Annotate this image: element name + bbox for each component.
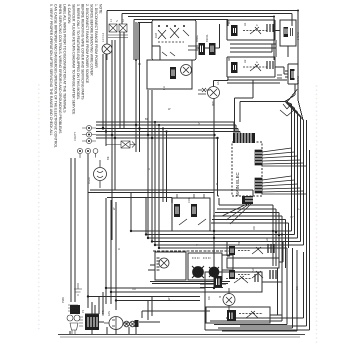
wire bottom staircase 4	[116, 301, 200, 311]
lower connector fan	[222, 204, 251, 224]
bottom component ground ticks	[70, 327, 136, 335]
wire mid quad 4	[166, 132, 168, 203]
svg-text:BEFORE REMOVING WIRE COVER AND: BEFORE REMOVING WIRE COVER AND SERVICING…	[81, 4, 85, 100]
connector J1	[86, 125, 91, 130]
wire bottom right corner 1	[279, 242, 283, 262]
wire mid horizontal B	[88, 192, 214, 194]
wire left bus B	[105, 54, 107, 146]
SE2 pins left	[285, 71, 288, 77]
lower row top rail	[153, 250, 232, 252]
lower row bottom rails	[150, 282, 230, 284]
wire junction spokes	[285, 102, 304, 121]
wire center vertical	[213, 98, 215, 288]
wire cord drop 2	[74, 158, 76, 302]
switch SW5 contacts	[226, 278, 252, 280]
wire lower bundle 2	[146, 108, 295, 235]
relay K1 dashes	[158, 41, 184, 43]
surface element SE2 coil	[290, 69, 295, 80]
wire bundle line5 corner	[96, 134, 215, 136]
svg-text:DR: DR	[207, 296, 211, 300]
fan pins upper	[255, 150, 262, 165]
connector J1 leads	[82, 128, 96, 141]
relay K1 dots	[158, 25, 185, 27]
svg-text:4. CAUTION:: 4. CAUTION:	[67, 4, 71, 24]
svg-text:FAN: FAN	[107, 311, 111, 316]
svg-text:BK: BK	[295, 286, 299, 290]
wire right lower corners	[210, 318, 304, 331]
door latch motor M3	[181, 65, 192, 76]
fan pins lower	[255, 178, 262, 193]
svg-text:MAIN ELEC: MAIN ELEC	[235, 172, 240, 196]
heating element coil E2	[209, 43, 216, 55]
wire right bundle outer2	[250, 150, 310, 330]
broil element coil E5	[191, 204, 197, 217]
svg-text:V: V	[227, 58, 231, 60]
surface element SE1 coil	[284, 27, 289, 37]
wire bottom right link	[262, 282, 282, 315]
lower switch box SW4	[188, 253, 222, 280]
SW6 pins block	[227, 310, 236, 321]
bottom small cap C1	[70, 305, 80, 314]
wire left bus I	[147, 90, 149, 238]
surface element SE2 bracket	[288, 64, 298, 84]
svg-text:H1: H1	[243, 22, 247, 26]
wire bottom baseline 2	[60, 336, 300, 338]
switch SW6 contacts	[239, 313, 263, 315]
main board lower connector P3	[242, 196, 253, 204]
wire mid horizontal A	[90, 190, 253, 196]
svg-text:AA: AA	[216, 81, 220, 85]
fuse F3 leads	[106, 142, 136, 148]
svg-text:OR: OR	[252, 226, 256, 230]
lower switch box SW3	[155, 252, 186, 280]
K1 inner notch	[152, 46, 160, 60]
svg-text:N: N	[115, 20, 119, 22]
svg-text:Y: Y	[297, 208, 301, 210]
switch SW2 contact	[243, 66, 267, 68]
wire P1 riser A	[235, 80, 254, 131]
svg-text:R: R	[117, 248, 121, 250]
svg-text:R: R	[147, 168, 151, 170]
K1 coil leads	[196, 24, 220, 48]
svg-text:PWR: PWR	[61, 297, 65, 303]
wire P1 riser B	[240, 102, 285, 123]
plug P2 hatch	[68, 305, 78, 311]
lower switch SW3 lamp	[159, 258, 169, 268]
wire cord drop 1	[70, 158, 72, 302]
svg-text:GY: GY	[197, 121, 201, 125]
fuse F3	[121, 141, 130, 148]
nested corner wires right 4	[213, 216, 282, 219]
wire top bus L2	[122, 14, 292, 27]
main control board outline	[232, 142, 262, 196]
row C pins	[270, 270, 276, 279]
connector J2 leads	[80, 154, 96, 159]
top right lower horizontals	[227, 80, 287, 83]
bottom small block	[135, 320, 139, 327]
bottom right switch box SW6	[206, 307, 270, 323]
wire left bus A	[102, 54, 104, 130]
bottom terminal block TB1	[85, 314, 99, 330]
bottom hatch stack	[79, 317, 83, 326]
cooling fan motor M2	[208, 87, 220, 99]
wire lower bundle 3	[148, 112, 298, 238]
wire right fan junction	[285, 84, 297, 102]
switch SW5 pins2	[255, 274, 258, 282]
switch SW1 contact	[243, 30, 267, 32]
connector fan lower	[262, 176, 307, 194]
relay row C contacts	[238, 274, 250, 276]
wire stair verticals	[106, 198, 146, 301]
wire bottom baseline	[58, 334, 305, 336]
right margin perforation dots	[316, 85, 318, 343]
wire left bus D	[114, 40, 116, 190]
svg-text:SERVICER: PLEASE RETURN DIAGRA: SERVICER: PLEASE RETURN DIAGRAM TO RANGE…	[72, 4, 76, 115]
top right switch box SW2	[227, 57, 275, 77]
svg-text:P: P	[255, 24, 259, 26]
svg-text:R: R	[216, 182, 218, 186]
bottom fan motor M4	[109, 317, 123, 330]
wire right bundle outer	[240, 120, 307, 326]
svg-text:OR: OR	[132, 287, 136, 291]
wire lower bundle 1	[131, 104, 292, 231]
nested corner wires right 5	[212, 220, 286, 223]
wire top bus 5	[138, 23, 152, 61]
bottom right motor M5	[223, 294, 235, 306]
wire bottom staircase 1	[106, 288, 205, 304]
SW4 top marks	[192, 257, 211, 259]
family A drop verticals	[273, 210, 289, 269]
switch SW1 pins	[267, 24, 273, 32]
element SE1 pins	[291, 28, 293, 36]
bottom terminals X2	[130, 321, 136, 327]
switch SW2 pins	[267, 61, 273, 69]
wire bottom right horizontals	[200, 284, 226, 288]
nested corner wires right 2	[217, 209, 276, 212]
wire left bus H	[139, 22, 141, 152]
svg-text:Y: Y	[196, 243, 198, 247]
wire mid horizontal bundle 1	[96, 121, 234, 123]
relay row box C outline	[227, 258, 279, 268]
nested corner wires right 1	[219, 198, 273, 210]
svg-text:1. DISCONNECT RANGE FROM POWER: 1. DISCONNECT RANGE FROM POWER	[94, 4, 98, 68]
wire left drop 4	[130, 192, 132, 231]
wire right box edge	[298, 62, 303, 120]
infinite switch coil H1	[231, 25, 238, 36]
wire row box right edge	[277, 268, 279, 315]
plug P2 bell	[70, 323, 78, 334]
svg-text:BAKE: BAKE	[195, 35, 199, 42]
wire bundle line6 corner	[96, 138, 219, 196]
relay K1 contacts	[158, 28, 179, 39]
relay K1 pins	[183, 30, 198, 50]
wire left bus F	[123, 32, 125, 128]
wire left bus G	[135, 22, 137, 152]
wire left bus E	[119, 32, 121, 128]
wire mid quad 2	[158, 125, 160, 248]
heating element coil E1	[199, 43, 206, 55]
convection fan motor M1	[94, 168, 107, 181]
wire lower bundle 4	[152, 116, 301, 242]
wire SE1 lead down	[287, 46, 289, 57]
relay row B feed	[227, 242, 230, 256]
surface element box SE1	[280, 20, 296, 46]
wire bottom staircase 2	[111, 292, 205, 304]
wire mid horizontal bundle 2	[96, 124, 236, 126]
svg-text:SOURCE BEFORE REMOVING WIRE CO: SOURCE BEFORE REMOVING WIRE COVER	[90, 4, 94, 76]
thermostat TH1	[277, 75, 282, 78]
svg-text:CAVITY: CAVITY	[73, 132, 77, 141]
bake element coil E4	[174, 204, 180, 217]
svg-text:MTR: MTR	[101, 310, 105, 316]
SW3 hatch	[157, 258, 160, 270]
svg-text:COIL: COIL	[187, 196, 191, 203]
power terminal block fuse F1	[109, 24, 117, 32]
svg-text:P1: P1	[81, 309, 85, 313]
svg-text:LIGHT: LIGHT	[87, 176, 91, 184]
top mid relay box K1	[152, 20, 196, 60]
plug P2 rings	[67, 315, 73, 321]
svg-text:1200W: 1200W	[296, 75, 300, 84]
svg-text:H2: H2	[243, 59, 247, 63]
wire left bus J	[151, 90, 153, 242]
relay K1 lower marks	[162, 52, 175, 56]
nested corner wires right 3	[215, 213, 279, 216]
wire SW1 to SE1	[275, 31, 288, 75]
wire left bus C	[111, 40, 113, 240]
svg-text:DLB: DLB	[154, 33, 158, 38]
wire left bottom links	[148, 265, 155, 270]
svg-text:BROIL: BROIL	[205, 34, 209, 42]
wire bottom mid links	[139, 296, 160, 322]
svg-text:BK: BK	[145, 117, 149, 121]
infinite switch coil H2	[231, 62, 238, 73]
relay coil E3	[170, 67, 176, 79]
wire right side feed	[142, 311, 210, 318]
svg-text:M: M	[218, 296, 222, 298]
top right switch box SW1	[227, 20, 275, 40]
small box right of SW4	[222, 255, 233, 270]
wire mid horizontal bundle 3	[96, 128, 238, 130]
relay row B contacts	[238, 250, 250, 252]
main board connector P1	[233, 133, 255, 143]
connector fan upper	[262, 148, 307, 166]
svg-text:3. REFER ONLY TO FEATURES EQUI: 3. REFER ONLY TO FEATURES EQUIPPED ON TH…	[76, 4, 80, 100]
svg-text:WHEN SERVICING CONTROLS. WIRIN: WHEN SERVICING CONTROLS. WIRING ERRORS A…	[58, 4, 62, 134]
SW5 pins block	[214, 276, 222, 287]
wire top bus L1	[107, 11, 298, 63]
wire left drop 3	[92, 292, 103, 314]
svg-text:COIL: COIL	[170, 196, 174, 203]
bottom right switch box SW5	[205, 272, 262, 292]
relay K3 top leads	[177, 194, 204, 198]
svg-text:LABEL ALL WIRES PRIOR TO DISCO: LABEL ALL WIRES PRIOR TO DISCONNECTION A…	[63, 4, 67, 113]
switch SW4 solenoid A	[193, 267, 204, 278]
svg-text:LF: LF	[227, 21, 231, 24]
relay row coil E7	[229, 270, 235, 279]
wire top bus N	[128, 17, 274, 61]
nested corner wires right 6	[211, 223, 289, 226]
connector J2	[77, 148, 82, 153]
svg-text:CAN CAUSE IMPROPER AND DANGERO: CAN CAUSE IMPROPER AND DANGEROUS OPERATI…	[54, 4, 58, 148]
svg-text:NC: NC	[251, 268, 255, 272]
wire M2 top lead	[214, 77, 229, 87]
notes text block	[49, 4, 103, 148]
svg-text:5. VERIFY PROPER OPERATION AFT: 5. VERIFY PROPER OPERATION AFTER SERVICI…	[49, 4, 53, 136]
bottom terminals X1	[124, 321, 130, 327]
connector pin gaps	[88, 28, 294, 327]
wire lower bundle 6	[159, 248, 287, 268]
svg-text:2. DISCONNECT RANGE FROM POWER: 2. DISCONNECT RANGE FROM POWER SOURCE	[85, 4, 89, 84]
svg-text:NOTE:: NOTE:	[99, 4, 103, 14]
relay K3 contacts	[179, 219, 206, 225]
relay row coil E6	[229, 246, 235, 255]
svg-text:2400W: 2400W	[296, 31, 300, 40]
svg-text:MW: MW	[211, 101, 215, 106]
svg-text:BK: BK	[106, 156, 110, 160]
wire mid horizontal C	[107, 197, 172, 199]
oven relay box K2	[147, 60, 192, 89]
oven light B1	[102, 44, 112, 54]
switch SW4 solenoid B	[209, 267, 219, 277]
svg-text:GY: GY	[290, 215, 294, 219]
left margin perforation dots	[38, 84, 40, 329]
wire right verticals lower	[282, 248, 304, 331]
top right wires between rows	[230, 40, 276, 57]
wire mid horizontal bundle 4	[96, 131, 240, 133]
power terminal marks	[108, 35, 128, 38]
svg-text:BR: BR	[237, 241, 241, 245]
wire top bus 4	[134, 20, 228, 61]
wire bottom staircase 3	[88, 297, 200, 309]
bake relay box K3	[172, 198, 210, 231]
wire J2 long drop	[87, 154, 89, 297]
row B pins	[268, 244, 274, 253]
svg-text:P: P	[255, 61, 259, 63]
svg-text:NO: NO	[265, 238, 269, 242]
motor run winding marks	[198, 88, 210, 94]
power terminal block fuse F2	[119, 24, 127, 32]
wire mid quad 3	[162, 129, 164, 203]
wire lower bundle 5	[155, 120, 304, 245]
wire bottom link to motor	[85, 314, 104, 322]
wire strip drops	[234, 122, 240, 133]
ground symbol chassis	[74, 283, 82, 295]
svg-text:L1 N L2: L1 N L2	[101, 32, 105, 42]
bottom right outer box	[205, 292, 250, 330]
svg-text:BU: BU	[162, 86, 166, 90]
wire mid quad 1	[154, 122, 156, 245]
